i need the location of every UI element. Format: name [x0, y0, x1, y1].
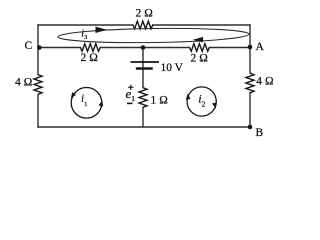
svg-text:4 Ω: 4 Ω [256, 76, 274, 88]
svg-text:1 Ω: 1 Ω [151, 95, 169, 107]
svg-text:2 Ω: 2 Ω [81, 52, 99, 64]
svg-text:A: A [256, 41, 265, 53]
svg-text:2 Ω: 2 Ω [191, 53, 209, 65]
svg-text:2 Ω: 2 Ω [136, 7, 154, 19]
svg-text:B: B [256, 127, 264, 139]
svg-text:4 Ω: 4 Ω [15, 77, 33, 89]
svg-text:10 V: 10 V [161, 62, 184, 74]
svg-text:C: C [25, 40, 33, 52]
